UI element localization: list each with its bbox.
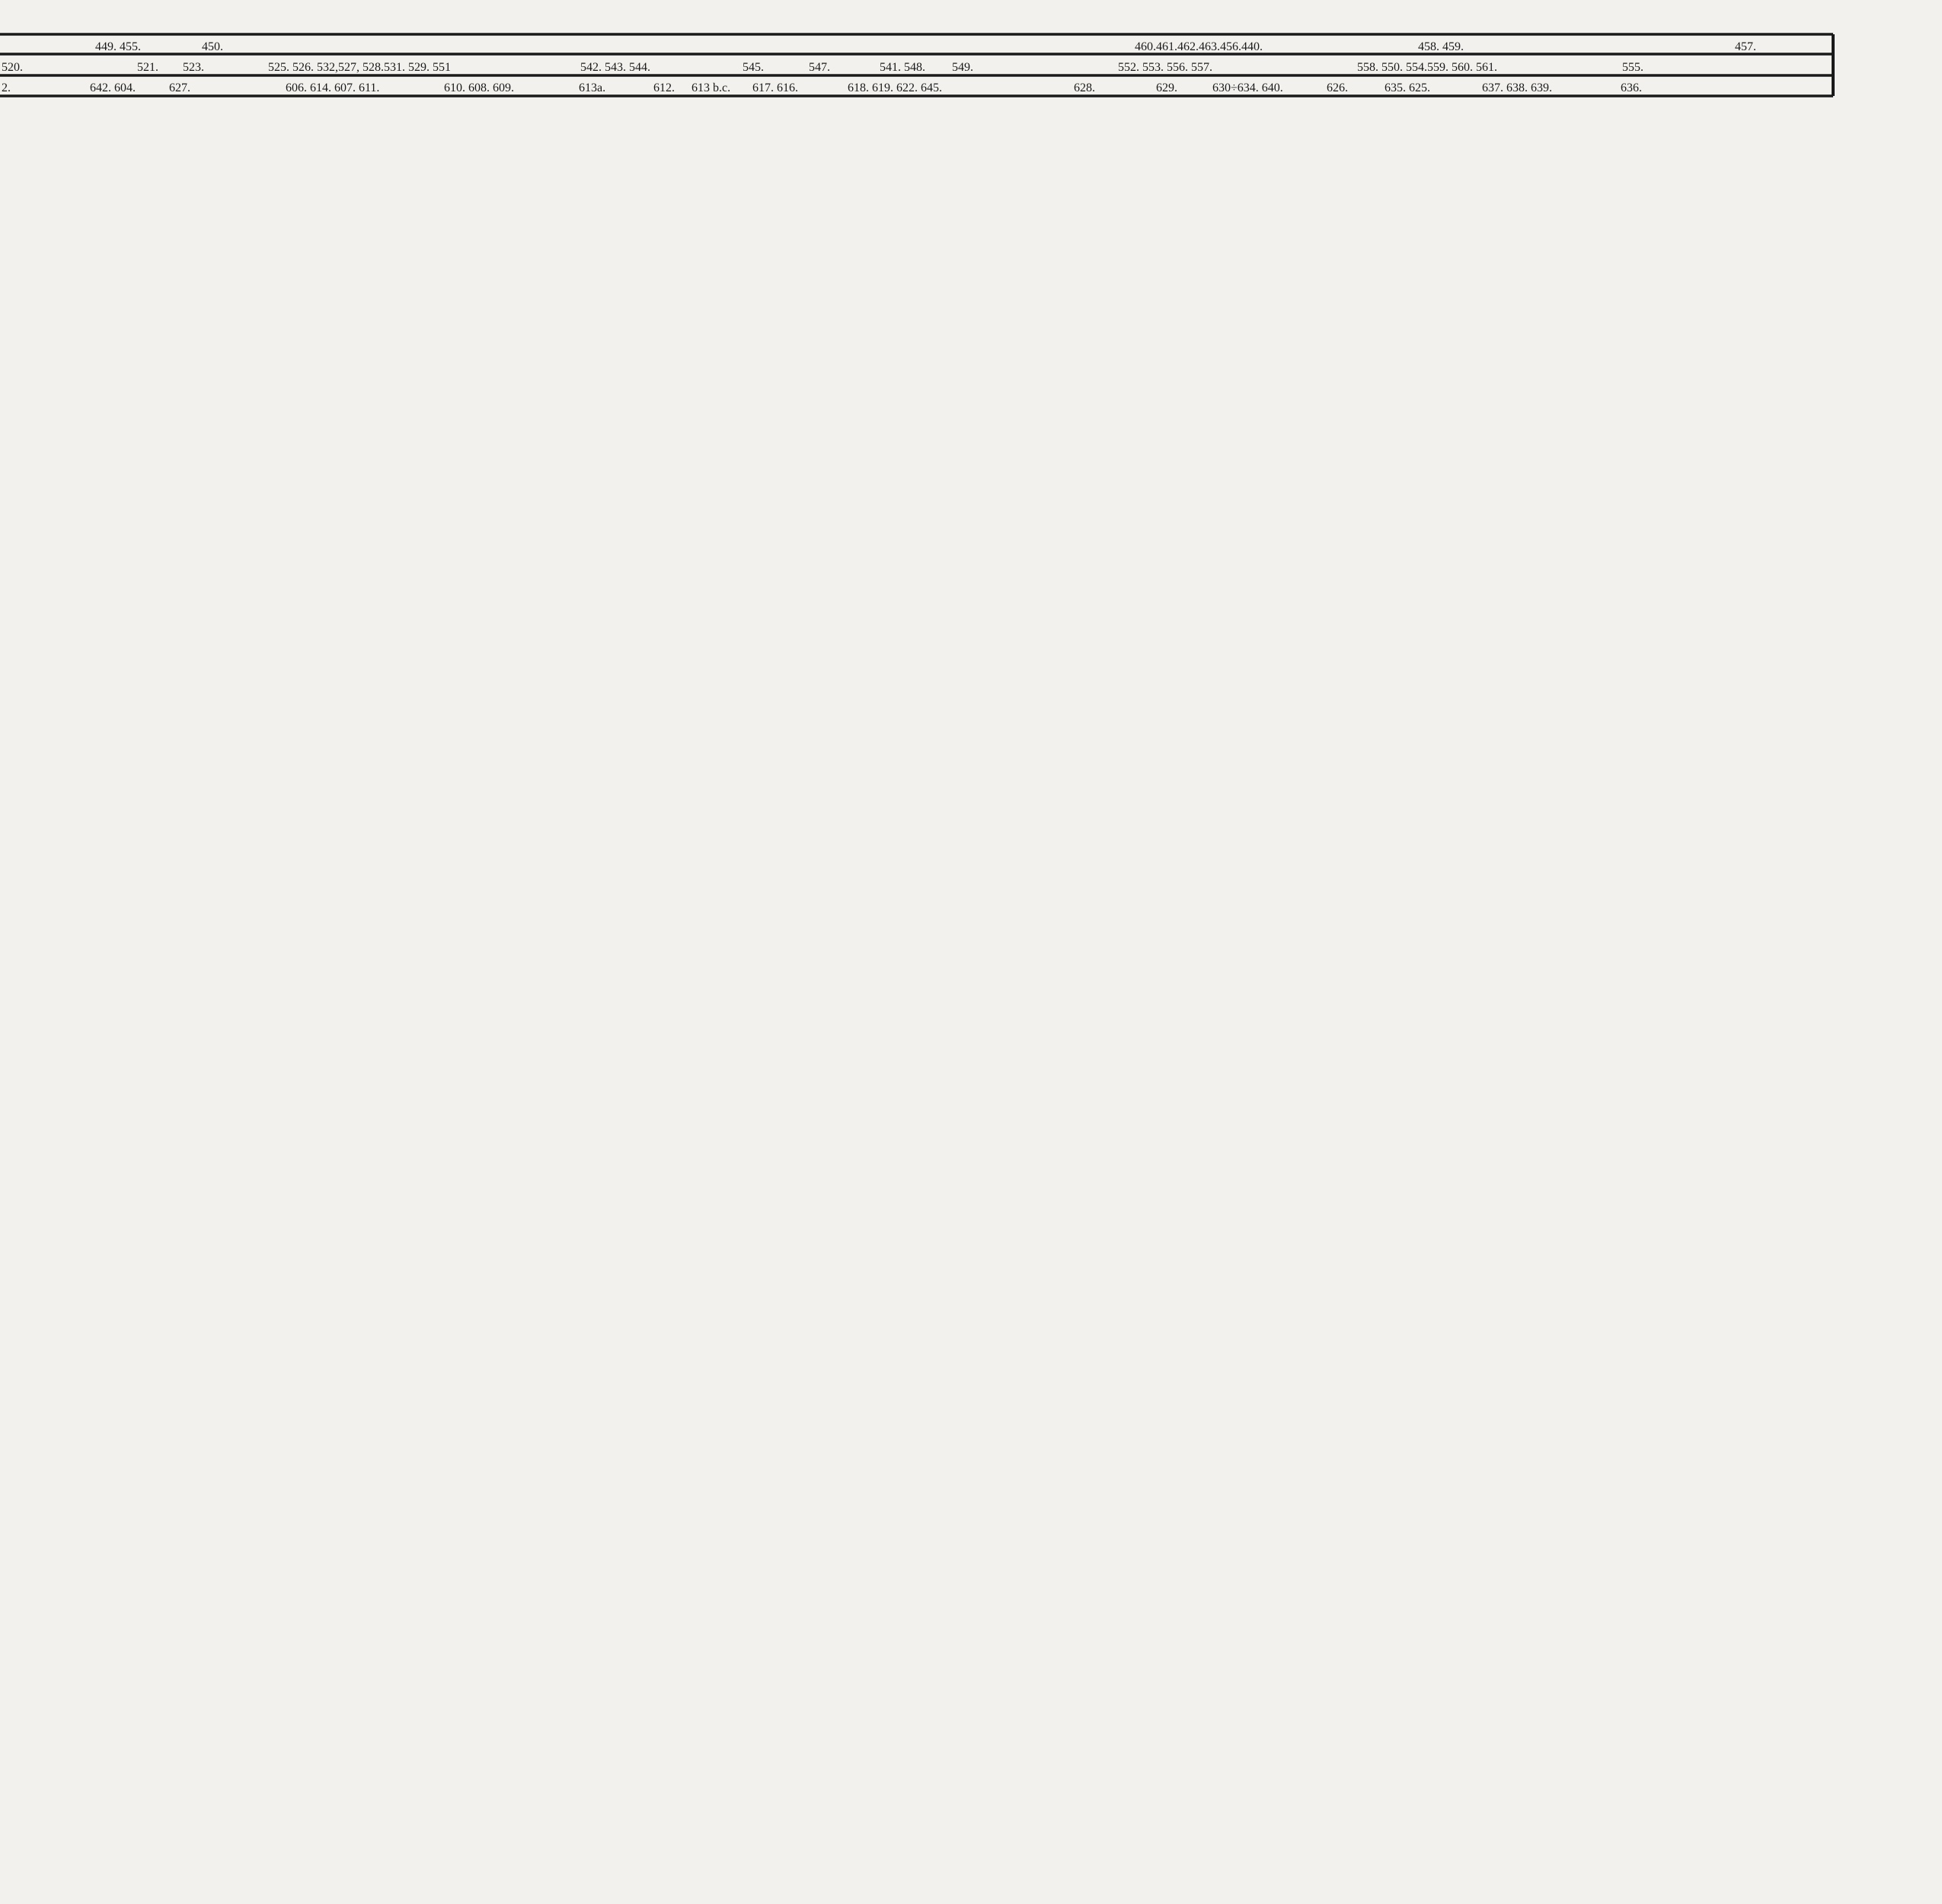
svg-text:636.: 636.	[1621, 81, 1642, 94]
svg-text:558. 550. 554.559. 560. 561: 558. 550. 554.559. 560. 561.	[1357, 61, 1497, 74]
svg-text:549.: 549.	[952, 61, 973, 74]
svg-text:637. 638. 639.: 637. 638. 639.	[1482, 81, 1552, 94]
svg-text:450.: 450.	[202, 40, 223, 53]
svg-text:449. 455.: 449. 455.	[95, 40, 141, 53]
svg-text:525. 526. 532,527, 528.531.: 525. 526. 532,527, 528.531. 529. 551	[268, 61, 451, 74]
svg-text:542. 543. 544.: 542. 543. 544.	[580, 61, 650, 74]
svg-text:457.: 457.	[1735, 40, 1756, 53]
svg-text:555.: 555.	[1622, 61, 1643, 74]
svg-text:458. 459.: 458. 459.	[1418, 40, 1464, 53]
svg-text:613 b.c.: 613 b.c.	[692, 81, 730, 94]
svg-text:610. 608. 609.: 610. 608. 609.	[444, 81, 514, 94]
svg-text:541. 548.: 541. 548.	[880, 61, 925, 74]
svg-text:629.: 629.	[1156, 81, 1177, 94]
svg-text:630÷634. 640.: 630÷634. 640.	[1212, 81, 1283, 94]
svg-text:521.: 521.	[137, 61, 158, 74]
svg-text:613a.: 613a.	[579, 81, 605, 94]
svg-text:547.: 547.	[809, 61, 830, 74]
svg-text:612.: 612.	[653, 81, 675, 94]
svg-text:523.: 523.	[183, 61, 204, 74]
svg-text:635. 625.: 635. 625.	[1385, 81, 1430, 94]
svg-text:552. 553. 556. 557.: 552. 553. 556. 557.	[1118, 61, 1212, 74]
svg-text:627.: 627.	[169, 81, 190, 94]
svg-text:642. 604.: 642. 604.	[90, 81, 136, 94]
svg-text:628.: 628.	[1074, 81, 1095, 94]
svg-text:606. 614. 607. 611.: 606. 614. 607. 611.	[286, 81, 379, 94]
svg-text:617. 616.: 617. 616.	[752, 81, 798, 94]
svg-text:626.: 626.	[1327, 81, 1348, 94]
svg-text:460.461.462.463.456.440.: 460.461.462.463.456.440.	[1135, 40, 1263, 53]
svg-text:520.: 520.	[2, 61, 23, 74]
svg-text:545.: 545.	[743, 61, 764, 74]
svg-text:618. 619. 622. 645.: 618. 619. 622. 645.	[848, 81, 942, 94]
svg-text:2.: 2.	[2, 81, 11, 94]
